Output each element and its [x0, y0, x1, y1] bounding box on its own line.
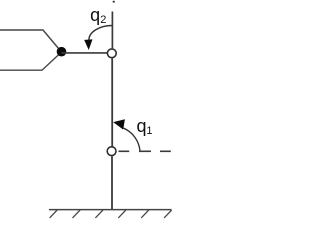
- q2 angle arc: [89, 26, 112, 40]
- pivot dot (fixed pin): [57, 47, 67, 57]
- link 2 horizontal bar: [62, 52, 108, 54]
- joint J1 circle: [107, 147, 116, 156]
- ground hatch 4: [118, 210, 126, 218]
- fork lower horizontal wire: [0, 52, 62, 70]
- ground hatch 5: [141, 210, 149, 218]
- ground hatch 6: [164, 210, 172, 218]
- svg-text:1: 1: [146, 125, 152, 137]
- q1 angle arc: [124, 128, 140, 151]
- q1 arrowhead: [113, 119, 125, 129]
- ground hatch 1: [50, 210, 58, 218]
- ground hatch 3: [95, 210, 103, 218]
- q2 arrowhead: [84, 39, 92, 50]
- horizontal reference dashed line at J1: [119, 150, 130, 152]
- link 1 vertical bar upper segment: [111, 58, 113, 147]
- reference axis dash-dot above J2: [113, 1, 115, 3]
- svg-text:2: 2: [100, 14, 106, 26]
- svg-text:q: q: [90, 5, 100, 25]
- link 1 vertical bar lower segment: [111, 156, 113, 209]
- fork upper horizontal wire: [0, 30, 62, 52]
- joint J2 circle: [107, 49, 116, 58]
- ground line: [49, 209, 172, 211]
- svg-text:q: q: [137, 116, 147, 136]
- ground hatch 2: [73, 210, 81, 218]
